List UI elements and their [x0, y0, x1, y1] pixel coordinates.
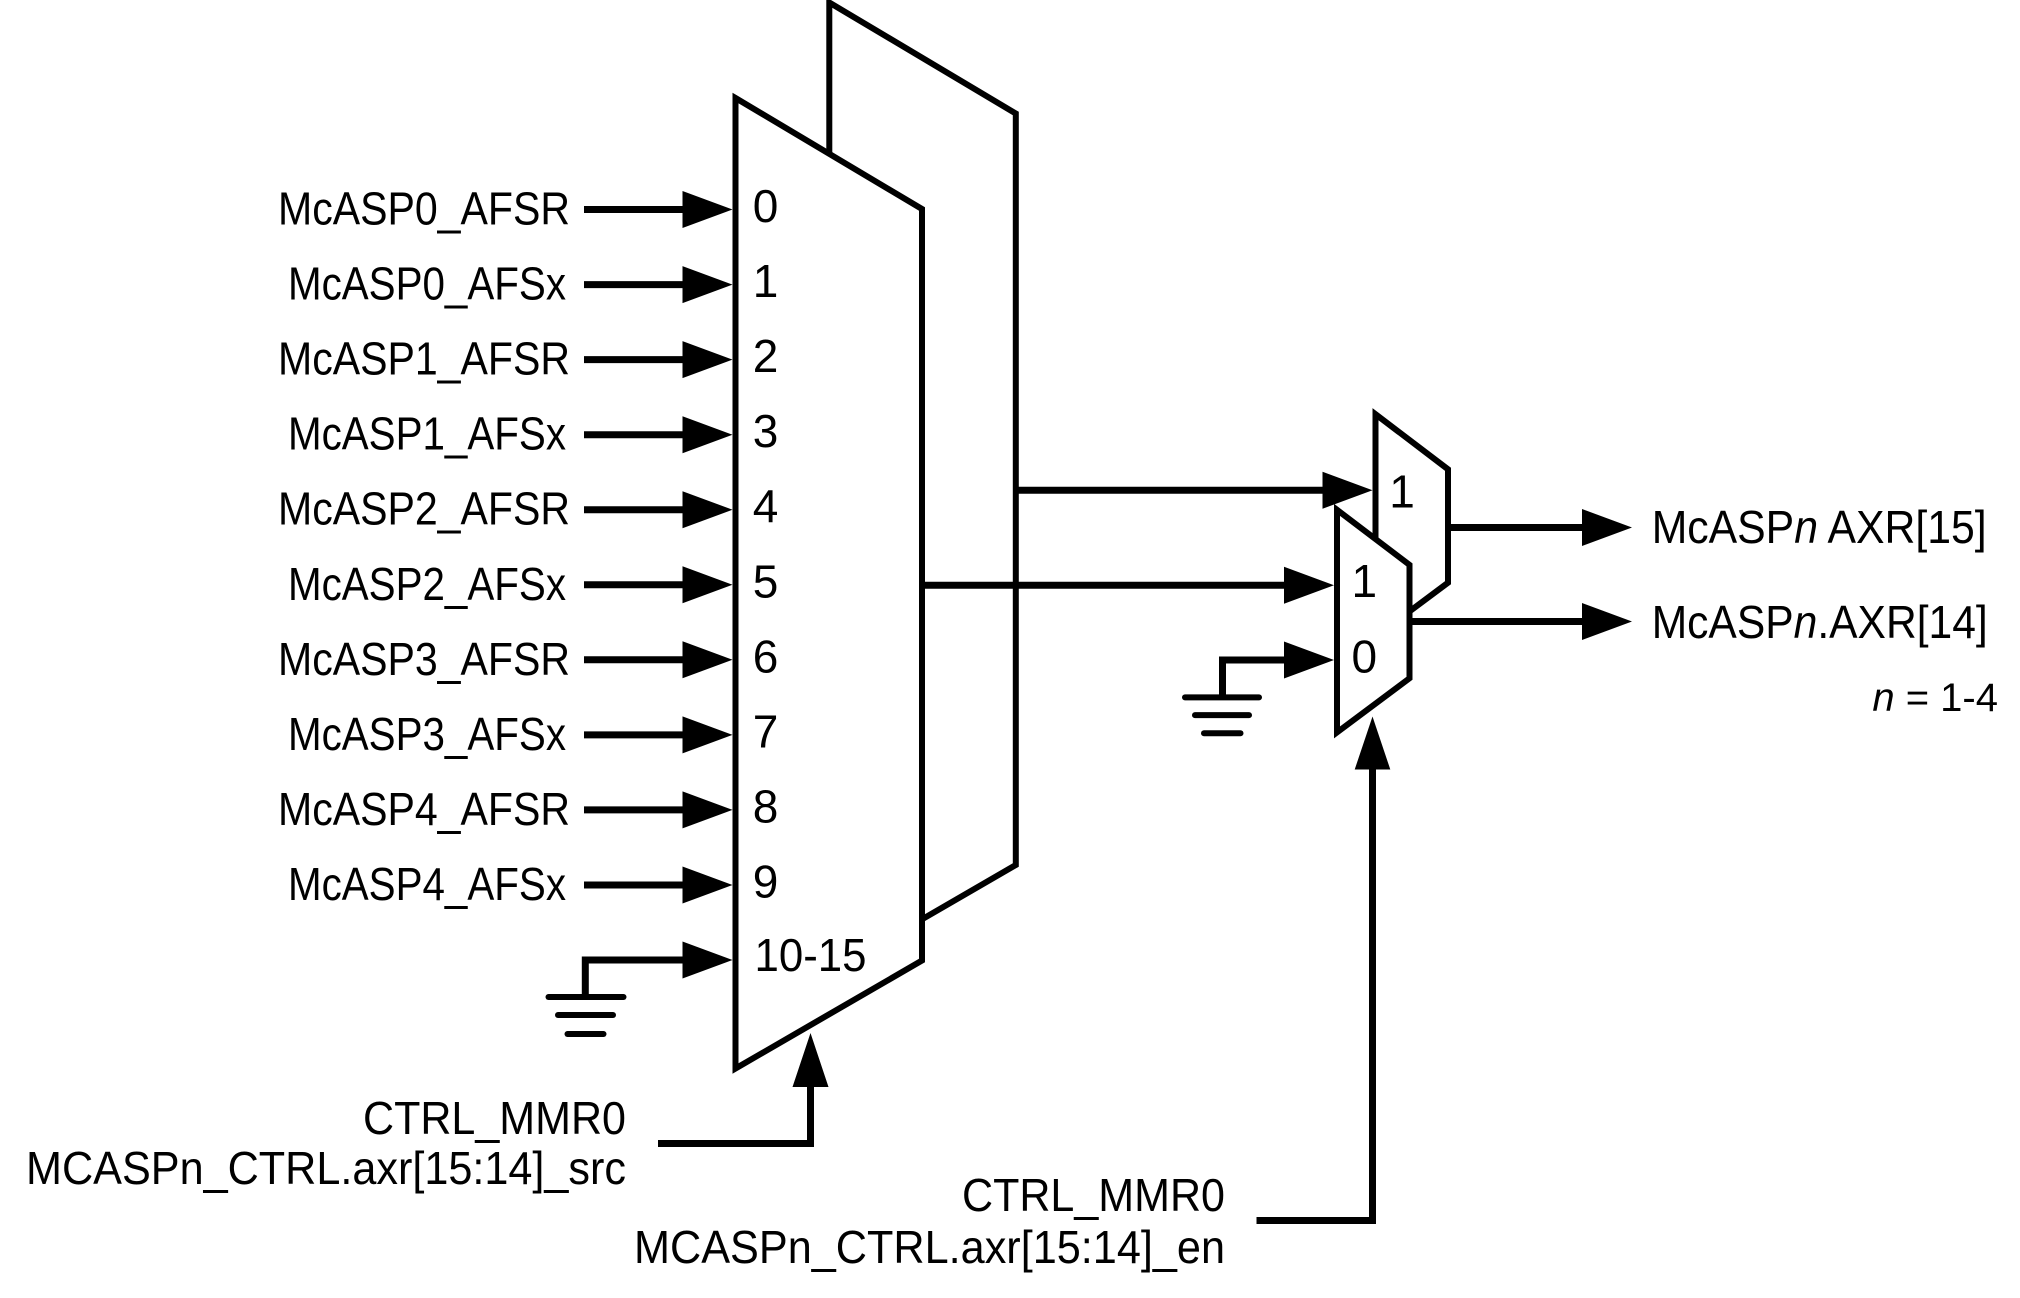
svg-text:1: 1 — [1352, 555, 1378, 607]
wire McASP4_AFSx input — [584, 882, 686, 889]
svg-text:9: 9 — [753, 856, 779, 908]
wire McASP1_AFSx input — [584, 431, 686, 438]
svg-text:McASPn AXR[15]: McASPn AXR[15] — [1652, 501, 1987, 553]
svg-text:5: 5 — [753, 555, 779, 607]
svg-text:McASP2_AFSx: McASP2_AFSx — [288, 558, 566, 610]
svg-text:6: 6 — [753, 630, 779, 682]
svg-text:7: 7 — [753, 705, 779, 757]
wire ground to mux U3 input 0 — [1223, 660, 1289, 696]
wire McASP0_AFSx input — [584, 281, 686, 288]
mux U4 (back 2:1 mux, McASPn AXR[15]) — [1376, 414, 1449, 637]
svg-text:McASP4_AFSR: McASP4_AFSR — [278, 783, 570, 835]
wire select src into mux U1 — [658, 1085, 811, 1144]
mux U2 (back 16:1 mux, AXR[15] path) — [829, 3, 1016, 974]
svg-text:0: 0 — [1352, 631, 1378, 683]
svg-text:MCASPn_CTRL.axr[15:14]_src: MCASPn_CTRL.axr[15:14]_src — [26, 1142, 626, 1194]
svg-text:MCASPn_CTRL.axr[15:14]_en: MCASPn_CTRL.axr[15:14]_en — [634, 1221, 1225, 1273]
svg-text:1: 1 — [1389, 466, 1415, 518]
svg-text:0: 0 — [753, 180, 779, 232]
wire McASP3_AFSR input — [584, 656, 686, 663]
svg-text:McASP3_AFSR: McASP3_AFSR — [278, 633, 570, 685]
svg-text:McASP3_AFSx: McASP3_AFSx — [288, 708, 566, 760]
wire U4 output McASPn AXR[15] — [1448, 524, 1586, 531]
wire McASP2_AFSR input — [584, 506, 686, 513]
svg-text:McASP2_AFSR: McASP2_AFSR — [278, 483, 570, 535]
mux U3 (front 2:1 mux, McASPn.AXR[14]) — [1337, 510, 1410, 733]
svg-text:8: 8 — [753, 780, 779, 832]
wire select en into mux U3 — [1257, 767, 1373, 1221]
svg-text:4: 4 — [753, 480, 779, 532]
svg-text:2: 2 — [753, 330, 779, 382]
svg-text:CTRL_MMR0: CTRL_MMR0 — [363, 1092, 626, 1144]
mux U1 (front 16:1 mux, AXR[14] path) — [736, 98, 923, 1069]
ground (left, tied to inputs 10-15) — [549, 997, 624, 1034]
wire U1 output to mux U3 input 1 — [922, 582, 1288, 589]
svg-text:McASPn.AXR[14]: McASPn.AXR[14] — [1652, 596, 1988, 648]
wire U2 output to mux U4 input 1 — [1016, 487, 1326, 494]
svg-text:McASP1_AFSx: McASP1_AFSx — [288, 408, 566, 460]
svg-text:CTRL_MMR0: CTRL_MMR0 — [962, 1169, 1225, 1221]
svg-text:3: 3 — [753, 405, 779, 457]
ground (right, tied to mux U3 input 0) — [1185, 697, 1259, 733]
wire McASP2_AFSx input — [584, 581, 686, 588]
wire McASP1_AFSR input — [584, 356, 686, 363]
wire McASP0_AFSR input — [584, 206, 686, 213]
svg-text:McASP1_AFSR: McASP1_AFSR — [278, 333, 570, 385]
svg-text:McASP0_AFSx: McASP0_AFSx — [288, 258, 566, 310]
wire McASP4_AFSR input — [584, 806, 686, 813]
wire ground to 10-15 input — [585, 960, 686, 996]
svg-text:McASP0_AFSR: McASP0_AFSR — [278, 183, 570, 235]
svg-text:10-15: 10-15 — [755, 929, 867, 981]
svg-text:McASP4_AFSx: McASP4_AFSx — [288, 858, 566, 910]
svg-text:n = 1-4: n = 1-4 — [1872, 676, 1998, 720]
wire U3 output McASPn.AXR[14] — [1410, 618, 1587, 625]
svg-text:1: 1 — [753, 255, 779, 307]
wire McASP3_AFSx input — [584, 731, 686, 738]
